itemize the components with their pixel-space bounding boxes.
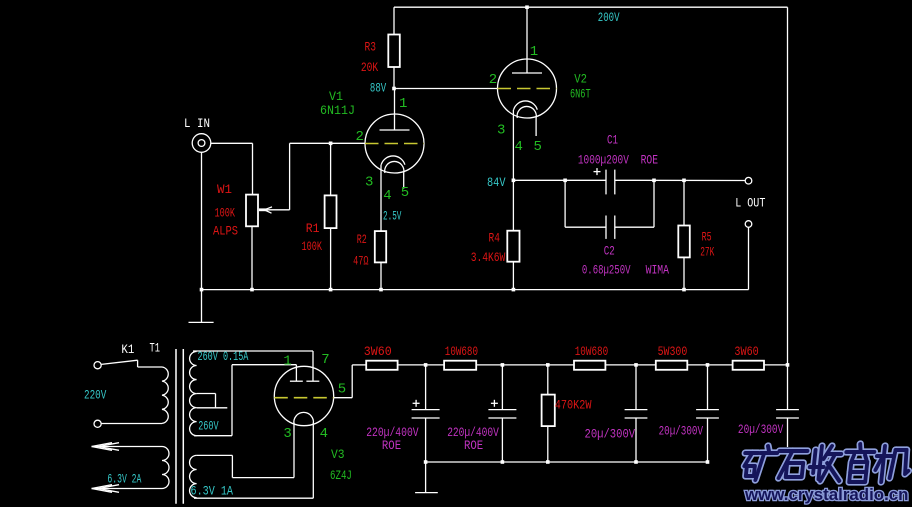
svg-text:2: 2 (356, 129, 364, 145)
svg-text:4: 4 (383, 188, 391, 204)
svg-text:6N6T: 6N6T (570, 87, 591, 102)
svg-text:10W680: 10W680 (445, 344, 478, 359)
svg-text:88V: 88V (370, 81, 386, 96)
svg-text:3W60: 3W60 (734, 344, 758, 359)
svg-text:0.68µ250V: 0.68µ250V (582, 263, 631, 278)
svg-text:L OUT: L OUT (735, 195, 765, 210)
svg-text:27K: 27K (700, 245, 714, 260)
svg-text:6Z4J: 6Z4J (330, 468, 352, 483)
svg-text:ROE: ROE (641, 153, 659, 168)
svg-text:3.4K6W: 3.4K6W (471, 250, 506, 265)
svg-text:V1: V1 (329, 89, 343, 104)
svg-text:5: 5 (338, 382, 346, 398)
svg-text:4: 4 (320, 426, 328, 442)
svg-text:100K: 100K (215, 206, 236, 221)
svg-text:R1: R1 (306, 221, 320, 236)
svg-text:L IN: L IN (184, 116, 210, 131)
svg-text:100K: 100K (302, 239, 323, 254)
svg-text:20K: 20K (361, 60, 378, 75)
svg-text:6N11J: 6N11J (320, 103, 355, 118)
svg-text:200V: 200V (598, 10, 620, 25)
svg-text:www.crystalradio.cn: www.crystalradio.cn (744, 486, 909, 504)
svg-text:6.3V 2A: 6.3V 2A (107, 472, 141, 487)
svg-text:C2: C2 (604, 244, 615, 259)
svg-text:3: 3 (365, 175, 373, 191)
svg-text:5: 5 (401, 185, 409, 201)
svg-text:3: 3 (497, 123, 505, 139)
svg-text:5W300: 5W300 (658, 344, 688, 359)
svg-text:6.3V 1A: 6.3V 1A (191, 484, 234, 499)
svg-text:K1: K1 (121, 342, 134, 357)
svg-text:R3: R3 (365, 40, 377, 55)
svg-text:10W680: 10W680 (575, 344, 609, 359)
svg-text:260V 0.15A: 260V 0.15A (198, 349, 249, 364)
svg-text:7: 7 (321, 352, 329, 368)
svg-text:V3: V3 (331, 447, 345, 462)
svg-text:R5: R5 (702, 230, 712, 245)
svg-text:220V: 220V (84, 387, 106, 402)
svg-text:ALPS: ALPS (213, 224, 238, 239)
svg-text:2: 2 (489, 72, 497, 88)
svg-text:T1: T1 (150, 341, 161, 356)
svg-text:84V: 84V (487, 175, 506, 190)
svg-text:1: 1 (399, 96, 407, 112)
svg-text:3W60: 3W60 (364, 344, 392, 359)
svg-text:WIMA: WIMA (646, 263, 670, 278)
svg-text:W1: W1 (217, 182, 232, 197)
svg-text:ROE: ROE (382, 438, 401, 453)
svg-text:V2: V2 (574, 72, 587, 87)
svg-text:R2: R2 (357, 232, 367, 247)
svg-text:47Ω: 47Ω (353, 254, 369, 269)
svg-text:C1: C1 (607, 132, 618, 147)
svg-text:260V: 260V (198, 418, 219, 433)
svg-text:R4: R4 (489, 231, 501, 246)
svg-text:20µ/300V: 20µ/300V (738, 422, 784, 437)
svg-text:2.5V: 2.5V (383, 209, 402, 224)
svg-text:3: 3 (283, 426, 291, 442)
svg-text:470K2W: 470K2W (555, 398, 592, 413)
svg-text:1: 1 (283, 354, 291, 370)
svg-text:20µ/300V: 20µ/300V (585, 427, 636, 442)
svg-text:20µ/300V: 20µ/300V (659, 424, 704, 439)
svg-text:4: 4 (515, 139, 523, 155)
svg-text:1000µ200V: 1000µ200V (578, 153, 629, 168)
svg-text:1: 1 (530, 44, 538, 60)
svg-text:5: 5 (534, 139, 542, 155)
svg-text:ROE: ROE (464, 438, 483, 453)
